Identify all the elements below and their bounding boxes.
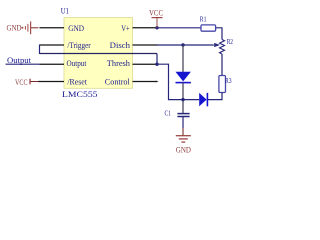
wire /Trigger drop [39,45,41,55]
potentiometer R2 zigzag [220,40,225,55]
wire trigger-threshold link [40,53,158,55]
diode D2 (horizontal, cathode right) [199,93,207,106]
wire VCC top stem [156,18,158,28]
node Thresh junction [155,62,158,65]
R2 wiper arrowhead [214,43,220,47]
wire link drop to Thresh node [156,54,158,65]
node C1 junction [181,98,184,101]
power port GND bar symbol [21,21,30,34]
svg-text:Thresh: Thresh [107,59,131,68]
svg-text:VCC: VCC [149,9,163,18]
pin GND lead (left) [40,27,65,29]
wire R3 bottom to diode D2 cathode [208,93,223,100]
wire D1 cathode down to C1 node [182,83,184,114]
wire VCC port lead to /Reset pin [30,81,39,83]
svg-text:R3: R3 [225,76,232,85]
svg-text:GND: GND [7,24,22,33]
ground symbol stem [182,128,184,136]
svg-text:Disch: Disch [110,41,131,50]
svg-text:Control: Control [105,78,131,87]
svg-text:GND: GND [176,145,191,155]
wire V+ to R1 [157,27,202,29]
pin V+ lead (right) [133,27,158,29]
node VCC junction [155,26,158,29]
power port VCC bar symbol [29,79,31,85]
svg-text:Output: Output [67,59,87,68]
ground symbol bars [176,136,191,142]
svg-text:LMC555: LMC555 [62,90,98,99]
pin /Reset lead (left) [38,81,64,83]
wire Disch node down to diode D1 [182,45,184,72]
svg-text:R2: R2 [227,37,234,46]
pin Control open-end tip [156,81,159,83]
wire Thresh branch [157,64,184,99]
pin Control lead (right, open end) [133,81,157,83]
svg-text:V+: V+ [121,24,130,33]
svg-text:R1: R1 [200,15,207,24]
IC U1 LMC555 body [64,18,133,89]
wire C1 node to diode D2 anode [183,99,199,101]
wire R2 to R3 [221,54,223,76]
diode D1 (vertical, cathode down) [176,72,191,83]
resistor R1 [201,25,216,31]
svg-text:/Reset: /Reset [67,78,87,87]
wire R1 to right rail [216,28,222,40]
wire Disch to R2 wiper [157,44,214,46]
wire C1 bottom to ground [182,117,184,128]
power port VCC top bar symbol [152,17,163,19]
svg-text:/Trigger: /Trigger [67,41,90,50]
pin Thresh lead (right) [133,63,158,65]
svg-text:U1: U1 [61,5,69,15]
pin /Trigger lead (left) [40,44,65,46]
resistor R3 [219,76,226,93]
svg-text:C1: C1 [165,109,172,117]
svg-text:VCC: VCC [15,78,28,87]
svg-text:GND: GND [68,24,84,33]
pin Output lead (left) [40,63,65,65]
node Disch junction [181,43,184,46]
wire Output net to Output pin [6,63,40,65]
capacitor C1 plates [177,114,189,117]
pin Disch lead (right) [133,44,158,46]
wire GND port lead [31,27,39,29]
